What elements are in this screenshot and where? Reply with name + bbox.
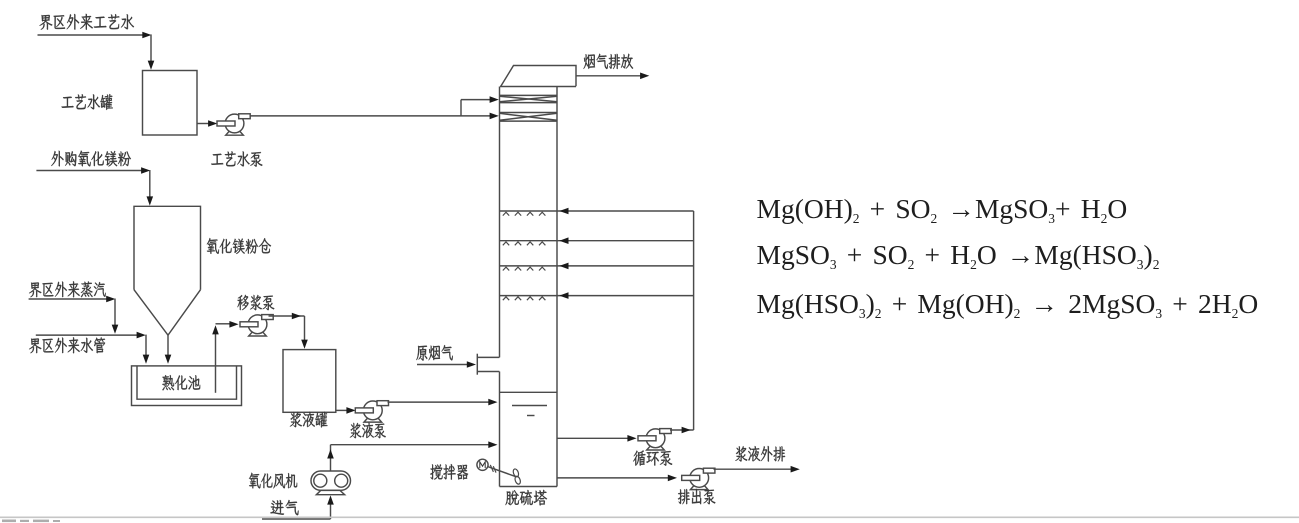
arrow right on process water line [142, 32, 151, 39]
wire: flue gas discharge [576, 75, 641, 77]
demister band 2 [500, 112, 558, 114]
arrow right on water line [137, 332, 146, 339]
wire: MgO powder line [36, 170, 142, 172]
wire: down into slurry tank [304, 316, 306, 341]
flow label: 烟气排放 [584, 54, 634, 69]
tower left wall lower [499, 372, 501, 487]
oxidation blower casing [311, 471, 351, 490]
tower right wall [556, 87, 558, 487]
agitator 搅拌器 (motor+shaft+impeller) [477, 459, 488, 470]
wire: water down to pool [145, 335, 147, 356]
label: 浆液罐 [290, 412, 328, 428]
flue gas duct top [477, 356, 499, 358]
process water pump 工艺水泵 [226, 132, 244, 136]
arrow into discharge pump [668, 475, 677, 482]
slurry transfer pump 移浆泵 [249, 332, 267, 336]
arrow into slurry tank [301, 340, 308, 349]
flow label: 进气 [271, 500, 299, 515]
wire: steam line [29, 298, 108, 300]
wire: circulation discharge [670, 429, 694, 431]
spray level 1 with nozzles [500, 210, 694, 212]
arrow raw flue gas [467, 361, 476, 368]
tower top line / hood bottom [500, 86, 576, 88]
slurry pump 浆液泵 [364, 418, 382, 422]
wire: blower outlet riser [330, 445, 332, 471]
arrow flue gas discharge [640, 73, 649, 80]
wire: to transfer pump [216, 323, 231, 325]
wire: tank to process water pump [197, 123, 209, 125]
spray level 4 with nozzles [500, 295, 694, 297]
wire: raw flue gas line [417, 364, 468, 366]
label: 脱硫塔 [506, 490, 548, 506]
wire: slurry pump discharge to tower [388, 401, 490, 403]
label: 氧化风机 [249, 473, 297, 489]
flue gas inlet flange [476, 354, 478, 375]
blower rotor right [335, 474, 348, 487]
tower 脱硫塔 left wall upper [499, 87, 501, 358]
wire: air intake line [262, 518, 331, 520]
wire: process water inlet line [38, 34, 145, 36]
arrow up on blower outlet [327, 449, 334, 458]
process water tank 工艺水罐 [143, 71, 198, 136]
label: 工艺水泵 [211, 151, 262, 166]
chemical equation 1 [757, 195, 1128, 223]
arrow air into tower [488, 441, 497, 448]
flow label: 外购氧化镁粉 [51, 151, 131, 167]
discharge pump 排出泵 [690, 486, 708, 490]
arrow steam onto water line [112, 325, 119, 334]
circulation pump 循环泵 [647, 446, 665, 450]
wire: tower to circulation pump [557, 437, 629, 439]
wire: pool suction riser [215, 333, 217, 393]
arrow on circulation discharge [682, 427, 691, 434]
arrow into demister band 2 [490, 113, 499, 120]
arrow into transfer pump [229, 321, 238, 328]
arrow up to transfer pump line [212, 325, 219, 334]
label: 熟化池 [162, 375, 200, 390]
wire: oxidation air to tower [331, 444, 490, 446]
wire: transfer pump discharge [269, 315, 305, 317]
arrow air into blower [327, 495, 334, 504]
blower rotor left [314, 474, 327, 487]
arrow right on MgO powder line [141, 167, 150, 174]
flow label: 原烟气 [416, 345, 452, 361]
label: 浆液泵 [350, 423, 386, 438]
arrow down into silo [147, 196, 154, 205]
arrow into slurry pump [346, 407, 355, 414]
wire: down to silo [149, 170, 151, 198]
demister band 1 [500, 94, 558, 96]
arrow slurry blowdown [791, 466, 800, 473]
arrow on transfer pump discharge [292, 313, 301, 320]
wire: upper demister feed [461, 99, 490, 101]
wire: tower to discharge pump [557, 477, 669, 479]
arrow down into process water tank [148, 61, 155, 70]
label: 氧化镁粉仓 [207, 238, 271, 254]
tower bottom [500, 486, 558, 488]
slaking pool inner wall [137, 366, 237, 399]
tower outlet hood [501, 66, 576, 87]
wire: air intake riser [330, 501, 332, 519]
wire: slurry tank outlet [336, 409, 348, 411]
wire: circulation riser to sprays [693, 211, 695, 430]
wire: steam down [114, 299, 116, 327]
wire: lower demister feed [461, 115, 490, 117]
flue gas duct bottom [477, 371, 499, 373]
spray level 3 with nozzles [500, 265, 694, 267]
arrow into process water pump [208, 120, 217, 127]
sump top line [500, 391, 558, 393]
flow label: 浆液外排 [735, 446, 785, 462]
arrow into demister band 1 [490, 96, 499, 103]
chemical equation 3 [757, 290, 1259, 318]
scan artifact bottom line [0, 516, 1299, 518]
flow label: 界区外来蒸汽 [29, 281, 106, 297]
label: 循环泵 [633, 450, 672, 465]
label: 移浆泵 [238, 295, 275, 310]
label: 排出泵 [678, 489, 715, 504]
label: 工艺水罐 [62, 94, 113, 110]
arrow right on steam line [106, 296, 115, 303]
wire: water line [36, 334, 138, 336]
flow label: 界区外来水管 [29, 337, 105, 353]
arrow silo outlet into slaking pool [165, 355, 172, 364]
wire: pump discharge to tower (lower) [250, 115, 461, 117]
liquid level dash short [527, 415, 535, 417]
blower base [316, 490, 344, 494]
silo cone [134, 290, 201, 336]
MgO powder silo 氧化镁粉仓 [134, 206, 201, 289]
arrow into circulation pump [627, 435, 636, 442]
label: 搅拌器 [430, 464, 468, 480]
scan artifact bottom-left marks [2, 520, 60, 523]
wire: silo outlet [167, 335, 169, 356]
chemical equation 2 [757, 241, 1160, 269]
spray level 2 with nozzles [500, 240, 694, 242]
arrow slurry into tower [488, 399, 497, 406]
slurry tank 浆液罐 [283, 350, 336, 413]
liquid level dash long [512, 405, 547, 407]
arrow water into slaking pool [143, 355, 150, 364]
wire: slurry blowdown [714, 468, 792, 470]
slaking pool 熟化池 outer [132, 366, 242, 406]
wire: tee riser [460, 100, 462, 116]
flow label: 界区外来工艺水 [40, 14, 135, 30]
wire: down to process water tank [150, 34, 152, 62]
